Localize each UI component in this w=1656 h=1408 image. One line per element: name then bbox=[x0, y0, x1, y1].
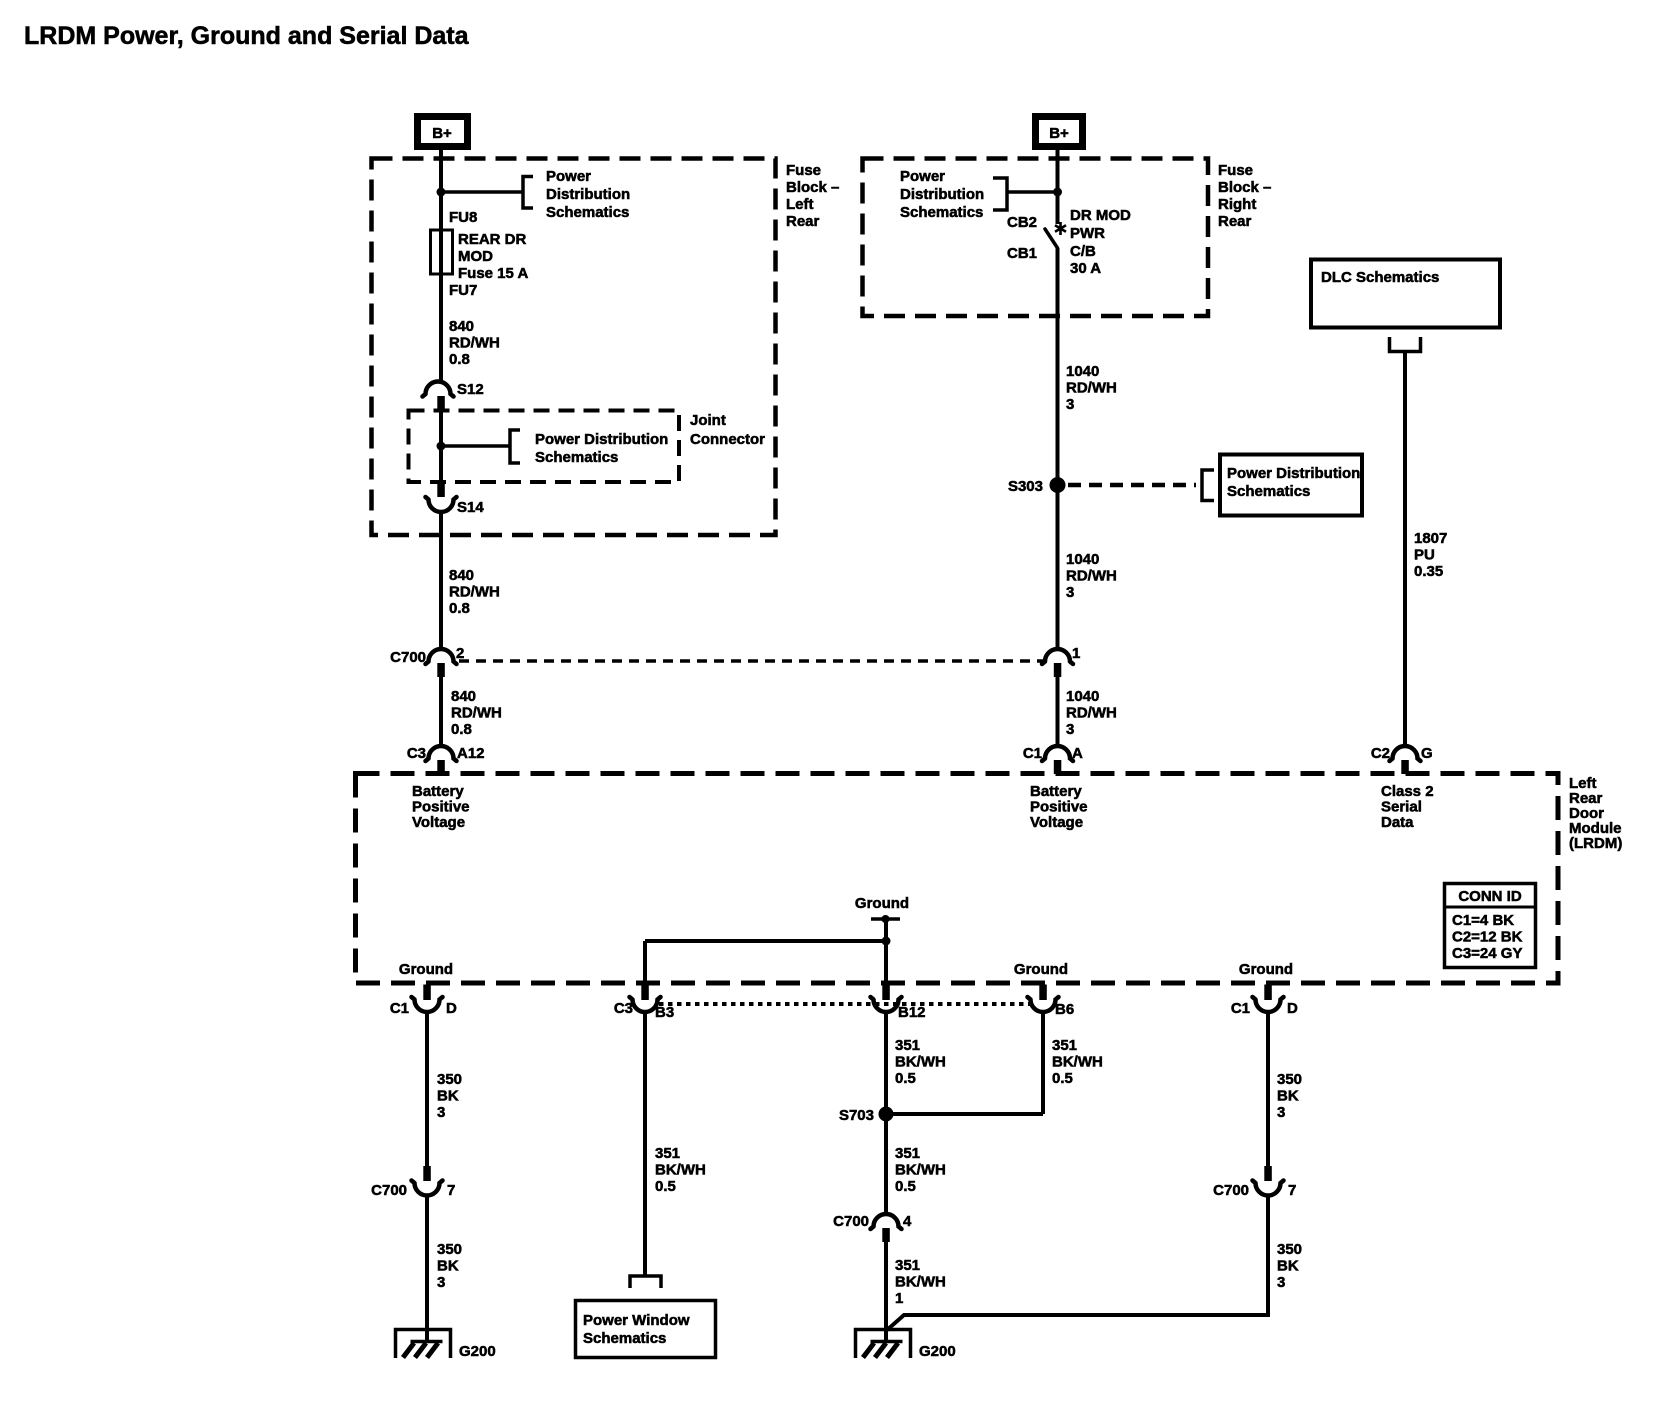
wire label 1040 RD/WH 3 (above C1) bbox=[1066, 688, 1117, 738]
wire label 351 BK/WH 0.5 (below S703) bbox=[895, 1145, 946, 1195]
svg-text:C700: C700 bbox=[1213, 1182, 1249, 1199]
svg-text:BK/WH: BK/WH bbox=[655, 1162, 706, 1179]
svg-text:B6: B6 bbox=[1055, 1001, 1074, 1018]
svg-text:0.8: 0.8 bbox=[449, 351, 470, 368]
svg-text:Schematics: Schematics bbox=[1227, 483, 1310, 500]
label: REAR DR MOD Fuse 15 A bbox=[458, 231, 528, 282]
wire C700 7 left down to G200 bbox=[425, 1195, 429, 1342]
svg-text:BK: BK bbox=[437, 1088, 459, 1105]
connector C700 pin 4 bbox=[833, 1213, 912, 1242]
svg-text:3: 3 bbox=[1066, 721, 1074, 738]
svg-text:BK/WH: BK/WH bbox=[895, 1162, 946, 1179]
label: Class 2 Serial Data bbox=[1381, 783, 1434, 831]
svg-text:3: 3 bbox=[1066, 584, 1074, 601]
svg-text:1807: 1807 bbox=[1414, 530, 1447, 547]
svg-text:Rear: Rear bbox=[1218, 213, 1252, 230]
wire breaker down to S303 bbox=[1056, 248, 1060, 485]
wire label 840 RD/WH 0.8 (above S12) bbox=[449, 318, 500, 368]
svg-text:RD/WH: RD/WH bbox=[449, 335, 500, 352]
svg-text:3: 3 bbox=[1277, 1104, 1285, 1121]
svg-text:C2: C2 bbox=[1371, 745, 1390, 762]
svg-text:Power: Power bbox=[900, 168, 945, 185]
fuse block right rear dashed box bbox=[863, 159, 1209, 317]
wire label 1807 PU 0.35 bbox=[1414, 530, 1447, 580]
svg-text:S303: S303 bbox=[1008, 478, 1043, 495]
wire connector 1 to C1 bbox=[1056, 677, 1060, 747]
wire branch to bracket bbox=[441, 444, 510, 448]
svg-text:C3: C3 bbox=[407, 745, 426, 762]
wire C700 to C3 bbox=[439, 677, 443, 747]
svg-text:Fuse 15 A: Fuse 15 A bbox=[458, 265, 528, 282]
connector C1 pin D (right) bbox=[1231, 985, 1298, 1018]
svg-text:840: 840 bbox=[449, 318, 474, 335]
connector C2 pin G bbox=[1371, 745, 1433, 774]
svg-text:G200: G200 bbox=[919, 1343, 956, 1360]
wire label 840 RD/WH 0.8 (above C700) bbox=[449, 567, 500, 617]
wire S303 down to connector 1 bbox=[1056, 485, 1060, 650]
ground G200 (middle) bbox=[856, 1330, 956, 1361]
svg-text:A12: A12 bbox=[457, 745, 485, 762]
wire S14 down to C700 bbox=[439, 511, 443, 650]
wire B12 down to C700 4 bbox=[884, 1012, 888, 1215]
svg-text:S12: S12 bbox=[457, 381, 484, 398]
wire ground branch down to B3 bbox=[643, 941, 647, 985]
svg-text:350: 350 bbox=[1277, 1071, 1302, 1088]
svg-text:0.5: 0.5 bbox=[655, 1178, 676, 1195]
svg-text:D: D bbox=[1287, 1000, 1298, 1017]
label: Left Rear Door Module (LRDM) bbox=[1569, 775, 1622, 852]
svg-text:350: 350 bbox=[437, 1071, 462, 1088]
svg-text:Ground: Ground bbox=[399, 961, 453, 978]
svg-text:BK/WH: BK/WH bbox=[1052, 1054, 1103, 1071]
node junction at power distribution tap left bbox=[437, 188, 446, 197]
svg-text:1040: 1040 bbox=[1066, 688, 1099, 705]
svg-text:B3: B3 bbox=[655, 1004, 674, 1021]
svg-text:1: 1 bbox=[895, 1290, 903, 1307]
svg-text:S703: S703 bbox=[839, 1107, 874, 1124]
svg-text:CB2: CB2 bbox=[1007, 214, 1037, 231]
connector C3 pin A12 bbox=[407, 745, 485, 774]
B+ terminal right bbox=[1036, 117, 1083, 147]
connector C3 pin B3 bbox=[614, 985, 674, 1022]
svg-text:D: D bbox=[446, 1000, 457, 1017]
svg-text:C2=12 BK: C2=12 BK bbox=[1452, 929, 1523, 946]
svg-text:Voltage: Voltage bbox=[1030, 814, 1083, 831]
svg-text:BK: BK bbox=[437, 1258, 459, 1275]
svg-text:C3: C3 bbox=[614, 1000, 633, 1017]
wire label 351 BK/WH 0.5 (B6) bbox=[1052, 1037, 1103, 1087]
svg-text:4: 4 bbox=[903, 1213, 912, 1230]
svg-text:RD/WH: RD/WH bbox=[1066, 380, 1117, 397]
ground G200 (left) bbox=[396, 1330, 496, 1361]
label: Battery Positive Voltage (right) bbox=[1030, 783, 1088, 831]
svg-text:0.8: 0.8 bbox=[449, 600, 470, 617]
bracket power distribution (joint connector) bbox=[510, 430, 520, 463]
bracket power distribution S303 bbox=[1202, 470, 1214, 501]
svg-text:351: 351 bbox=[895, 1145, 920, 1162]
wire label 350 BK 3 (right upper) bbox=[1277, 1071, 1302, 1121]
node ground junction bbox=[882, 937, 891, 946]
svg-text:Right: Right bbox=[1218, 196, 1256, 213]
svg-text:Power Distribution: Power Distribution bbox=[535, 431, 668, 448]
svg-text:CB1: CB1 bbox=[1007, 245, 1037, 262]
svg-text:Fuse: Fuse bbox=[786, 162, 821, 179]
wire branch to power distribution bracket bbox=[441, 190, 523, 194]
wire label 350 BK 3 (left upper) bbox=[437, 1071, 462, 1121]
svg-text:30 A: 30 A bbox=[1070, 260, 1101, 277]
svg-text:Schematics: Schematics bbox=[583, 1330, 666, 1347]
B+ terminal left bbox=[418, 117, 468, 147]
svg-text:Power Window: Power Window bbox=[583, 1312, 690, 1329]
CONN ID table bbox=[1445, 884, 1536, 968]
svg-text:Battery: Battery bbox=[1030, 783, 1082, 800]
svg-text:Distribution: Distribution bbox=[546, 186, 630, 203]
svg-text:3: 3 bbox=[1277, 1274, 1285, 1291]
wire B+ right down to breaker bbox=[1056, 150, 1060, 224]
ground terminal tick bbox=[871, 917, 900, 921]
svg-text:Block –: Block – bbox=[786, 179, 839, 196]
fuse FU8/FU7 REAR DR MOD Fuse 15 A bbox=[431, 230, 453, 274]
svg-text:FU7: FU7 bbox=[449, 282, 477, 299]
wire ground down inside module bbox=[884, 919, 888, 985]
svg-text:BK/WH: BK/WH bbox=[895, 1054, 946, 1071]
label: Power Distribution Schematics (right fuse block) bbox=[900, 168, 984, 221]
svg-text:350: 350 bbox=[437, 1241, 462, 1258]
wire label 1040 RD/WH 3 (above connector 1) bbox=[1066, 551, 1117, 601]
wire B6 down to S703 bbox=[1041, 1012, 1045, 1115]
wire label 350 BK 3 (left lower) bbox=[437, 1241, 462, 1291]
wire C1 D left down bbox=[425, 1012, 429, 1167]
label: Joint Connector bbox=[690, 412, 765, 448]
svg-text:REAR DR: REAR DR bbox=[458, 231, 527, 248]
svg-text:Serial: Serial bbox=[1381, 799, 1422, 816]
connector pin B6 bbox=[1028, 985, 1075, 1019]
svg-text:RD/WH: RD/WH bbox=[1066, 705, 1117, 722]
power window schematics box bbox=[576, 1301, 716, 1358]
svg-text:351: 351 bbox=[895, 1037, 920, 1054]
svg-text:Positive: Positive bbox=[1030, 799, 1088, 816]
wire B+ left down to S12 bbox=[439, 150, 443, 382]
wire label 351 BK/WH 0.5 (B12 upper) bbox=[895, 1037, 946, 1087]
svg-text:0.35: 0.35 bbox=[1414, 563, 1443, 580]
wire label 351 BK/WH 0.5 (B3) bbox=[655, 1145, 706, 1195]
svg-text:0.5: 0.5 bbox=[895, 1070, 916, 1087]
wire label 351 BK/WH 1 bbox=[895, 1257, 946, 1307]
svg-text:PWR: PWR bbox=[1070, 225, 1105, 242]
svg-text:B+: B+ bbox=[432, 125, 452, 142]
wire C700 4 down to G200 bbox=[884, 1242, 888, 1342]
bracket power distribution left bbox=[523, 177, 533, 209]
connector pin B12 bbox=[871, 985, 926, 1022]
svg-text:C1=4 BK: C1=4 BK bbox=[1452, 912, 1514, 929]
wire DLC down to C2 bbox=[1403, 352, 1407, 747]
svg-text:7: 7 bbox=[447, 1182, 455, 1199]
svg-text:Schematics: Schematics bbox=[535, 449, 618, 466]
svg-text:351: 351 bbox=[1052, 1037, 1077, 1054]
svg-text:Data: Data bbox=[1381, 814, 1414, 831]
svg-text:FU8: FU8 bbox=[449, 209, 477, 226]
svg-text:LRDM Power, Ground and Serial: LRDM Power, Ground and Serial Data bbox=[24, 22, 470, 50]
connector C700 pin 7 (right) bbox=[1213, 1166, 1296, 1199]
svg-text:MOD: MOD bbox=[458, 248, 493, 265]
svg-text:351: 351 bbox=[655, 1145, 680, 1162]
svg-text:Class 2: Class 2 bbox=[1381, 783, 1434, 800]
splice S303 bbox=[1008, 477, 1066, 495]
svg-text:C1: C1 bbox=[1231, 1000, 1250, 1017]
svg-text:RD/WH: RD/WH bbox=[1066, 568, 1117, 585]
label: Fuse Block - Left Rear bbox=[786, 162, 839, 230]
dashed branch S303 to power distribution bbox=[1068, 483, 1196, 488]
svg-text:BK/WH: BK/WH bbox=[895, 1274, 946, 1291]
svg-text:Ground: Ground bbox=[855, 895, 909, 912]
power distribution schematics box bbox=[1220, 455, 1362, 516]
svg-text:RD/WH: RD/WH bbox=[449, 584, 500, 601]
svg-text:1040: 1040 bbox=[1066, 363, 1099, 380]
svg-text:C3=24 GY: C3=24 GY bbox=[1452, 945, 1522, 962]
svg-text:Joint: Joint bbox=[690, 412, 726, 429]
svg-text:Block –: Block – bbox=[1218, 179, 1271, 196]
svg-text:Power: Power bbox=[546, 168, 591, 185]
connector C700 pin 7 (left) bbox=[371, 1166, 455, 1199]
svg-text:PU: PU bbox=[1414, 547, 1435, 564]
connector pin 1 bbox=[1042, 645, 1080, 677]
label: Battery Positive Voltage (left) bbox=[412, 783, 470, 831]
svg-text:CONN ID: CONN ID bbox=[1458, 888, 1522, 905]
svg-text:Connector: Connector bbox=[690, 431, 765, 448]
svg-text:B+: B+ bbox=[1049, 125, 1069, 142]
dashed connector link C700 2 to 1 bbox=[459, 659, 1046, 663]
svg-text:1: 1 bbox=[1072, 645, 1080, 662]
svg-text:3: 3 bbox=[437, 1104, 445, 1121]
svg-text:Schematics: Schematics bbox=[900, 204, 983, 221]
svg-text:BK: BK bbox=[1277, 1258, 1299, 1275]
svg-text:C700: C700 bbox=[371, 1182, 407, 1199]
svg-text:C700: C700 bbox=[833, 1213, 869, 1230]
wire S12 to S14 bbox=[439, 411, 443, 484]
wire label 1040 RD/WH 3 (above S303) bbox=[1066, 363, 1117, 413]
svg-text:350: 350 bbox=[1277, 1241, 1302, 1258]
svg-text:Voltage: Voltage bbox=[412, 814, 465, 831]
svg-text:7: 7 bbox=[1288, 1182, 1296, 1199]
svg-text:DLC Schematics: DLC Schematics bbox=[1321, 269, 1439, 286]
svg-text:C1: C1 bbox=[390, 1000, 409, 1017]
LRDM module dashed box bbox=[356, 774, 1559, 984]
circuit breaker CB2/CB1 DR MOD PWR C/B 30 A bbox=[1007, 207, 1131, 277]
svg-text:Ground: Ground bbox=[1014, 961, 1068, 978]
fuse block left rear dashed box bbox=[372, 159, 776, 536]
splice S12 bbox=[423, 381, 484, 411]
svg-text:0.5: 0.5 bbox=[1052, 1070, 1073, 1087]
node junction right tap bbox=[1053, 188, 1062, 197]
svg-text:RD/WH: RD/WH bbox=[451, 705, 502, 722]
svg-text:Distribution: Distribution bbox=[900, 186, 984, 203]
svg-text:3: 3 bbox=[437, 1274, 445, 1291]
svg-text:3: 3 bbox=[1066, 396, 1074, 413]
joint connector dashed box bbox=[409, 411, 680, 483]
svg-text:G: G bbox=[1421, 745, 1433, 762]
wire label 840 RD/WH 0.8 (above C3) bbox=[451, 688, 502, 738]
svg-text:B12: B12 bbox=[898, 1004, 926, 1021]
svg-text:S14: S14 bbox=[457, 499, 484, 516]
connector C700 pin 2 bbox=[390, 645, 464, 677]
svg-text:Schematics: Schematics bbox=[546, 204, 629, 221]
splice S14 bbox=[426, 483, 485, 516]
bracket power distribution right bbox=[993, 178, 1007, 210]
svg-text:351: 351 bbox=[895, 1257, 920, 1274]
svg-text:(LRDM): (LRDM) bbox=[1569, 835, 1622, 852]
connector C1 pin A bbox=[1023, 745, 1083, 774]
svg-text:C700: C700 bbox=[390, 649, 426, 666]
wire B3 down to power window tab bbox=[643, 1012, 647, 1277]
svg-text:0.8: 0.8 bbox=[451, 721, 472, 738]
svg-text:840: 840 bbox=[449, 567, 474, 584]
svg-text:840: 840 bbox=[451, 688, 476, 705]
svg-text:Ground: Ground bbox=[1239, 961, 1293, 978]
svg-text:A: A bbox=[1072, 745, 1083, 762]
wire label 350 BK 3 (right lower) bbox=[1277, 1241, 1302, 1291]
svg-text:Power Distribution: Power Distribution bbox=[1227, 465, 1360, 482]
svg-text:Rear: Rear bbox=[786, 213, 820, 230]
DLC tab bbox=[1390, 337, 1421, 352]
svg-text:Positive: Positive bbox=[412, 799, 470, 816]
label: Power Distribution Schematics (left fuse block) bbox=[546, 168, 630, 221]
svg-text:G200: G200 bbox=[459, 1343, 496, 1360]
node junction inside joint connector bbox=[437, 442, 446, 451]
svg-text:1040: 1040 bbox=[1066, 551, 1099, 568]
DLC Schematics box bbox=[1311, 260, 1500, 328]
connector C1 pin D (left) bbox=[390, 985, 457, 1018]
svg-text:Battery: Battery bbox=[412, 783, 464, 800]
dotted connector link B3 to B6 bbox=[659, 1002, 1031, 1006]
splice S703 bbox=[839, 1107, 894, 1125]
wire C700 7 right down and across to G200 bbox=[887, 1195, 1268, 1330]
svg-text:C/B: C/B bbox=[1070, 243, 1096, 260]
svg-text:Left: Left bbox=[786, 196, 814, 213]
svg-text:C1: C1 bbox=[1023, 745, 1042, 762]
svg-text:DR MOD: DR MOD bbox=[1070, 207, 1131, 224]
label: Fuse Block - Right Rear bbox=[1218, 162, 1271, 230]
wire branch bracket to main wire bbox=[1007, 190, 1058, 194]
svg-text:Fuse: Fuse bbox=[1218, 162, 1253, 179]
svg-text:BK: BK bbox=[1277, 1088, 1299, 1105]
label: Power Distribution Schematics (joint connector) bbox=[535, 431, 668, 466]
wire ground branch to B3 bbox=[645, 939, 886, 943]
wire C1 D right down bbox=[1266, 1012, 1270, 1167]
wire branch S703 to B6 bbox=[886, 1112, 1043, 1116]
svg-text:0.5: 0.5 bbox=[895, 1178, 916, 1195]
power window tab bbox=[630, 1276, 661, 1288]
